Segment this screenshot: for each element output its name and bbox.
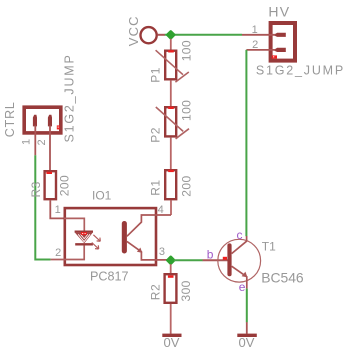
resistor R2 300 xyxy=(149,274,193,303)
wire R2 bottom lead xyxy=(170,304,172,334)
svg-text:200: 200 xyxy=(58,175,72,196)
wire R3 bottom lead to IO1 pin1 xyxy=(50,201,64,219)
wire base pin stub xyxy=(203,259,228,261)
wire IO1 pin4 path collector xyxy=(127,215,171,236)
svg-text:BC546: BC546 xyxy=(261,270,304,286)
node junction IO1 pin3 xyxy=(165,255,176,266)
phototransistor base bar inside IO1 xyxy=(122,221,127,254)
svg-text:b: b xyxy=(207,248,214,262)
svg-text:3: 3 xyxy=(159,246,165,258)
svg-text:0V: 0V xyxy=(239,335,255,350)
svg-text:PC817: PC817 xyxy=(90,270,129,284)
wire net base xyxy=(174,259,203,261)
wire HV pin1 stub xyxy=(242,34,275,36)
svg-text:300: 300 xyxy=(179,280,193,301)
emission arrow 1 xyxy=(93,235,100,242)
emission arrow 2 xyxy=(92,243,99,250)
transistor T1 BC546 xyxy=(207,228,304,294)
connector CTRL S1G2_JUMP xyxy=(3,53,77,145)
svg-text:e: e xyxy=(239,280,246,294)
resistor R3 200 xyxy=(29,171,72,199)
wire VCC pin stub xyxy=(158,34,165,36)
connector HV S1G2_JUMP xyxy=(252,3,345,77)
wire CTRL pin1 stub xyxy=(34,126,36,156)
node junction at VCC net xyxy=(165,30,176,41)
wire HV pin2 stub xyxy=(246,49,275,51)
potentiometer P2 100 xyxy=(148,100,193,169)
svg-text:HV: HV xyxy=(268,3,290,19)
svg-text:2: 2 xyxy=(55,247,61,259)
wire CTRL pin2 stub xyxy=(49,126,51,171)
ground 0V left xyxy=(162,334,181,350)
diode LED inside IO1 xyxy=(75,232,93,245)
wire IO1 pin2 internal from LED cathode xyxy=(51,245,85,259)
wire net HV pin2 to collector xyxy=(245,50,247,236)
svg-text:100: 100 xyxy=(179,40,193,61)
svg-text:1: 1 xyxy=(21,139,33,145)
svg-text:200: 200 xyxy=(179,175,193,196)
svg-text:CTRL: CTRL xyxy=(3,101,17,137)
svg-text:1: 1 xyxy=(55,204,61,216)
svg-text:P1: P1 xyxy=(148,67,162,83)
svg-text:R1: R1 xyxy=(148,179,162,195)
svg-text:P2: P2 xyxy=(148,127,162,143)
wire net emitter to ground xyxy=(246,289,248,323)
wire net CTRL pin1 to IO1 pin2 xyxy=(35,155,50,259)
svg-text:R2: R2 xyxy=(149,284,163,300)
optocoupler IO1 PC817 xyxy=(55,188,165,283)
svg-text:4: 4 xyxy=(158,204,164,216)
arrowhead emitter IO1 xyxy=(137,248,142,253)
svg-text:0V: 0V xyxy=(164,335,180,350)
svg-text:R3: R3 xyxy=(29,181,43,197)
svg-text:VCC: VCC xyxy=(126,15,141,46)
svg-text:2: 2 xyxy=(36,139,48,145)
svg-text:c: c xyxy=(237,228,243,242)
svg-text:100: 100 xyxy=(179,100,193,121)
svg-text:S1G2_JUMP: S1G2_JUMP xyxy=(63,53,77,142)
resistor R1 200 xyxy=(148,170,193,215)
supply VCC xyxy=(126,15,157,46)
ground 0V right xyxy=(237,334,256,350)
wire IO1 pin3 path emitter xyxy=(127,241,168,260)
svg-text:T1: T1 xyxy=(262,240,276,254)
potentiometer P1 100 xyxy=(148,39,193,106)
svg-text:S1G2_JUMP: S1G2_JUMP xyxy=(256,64,345,78)
wire R2 top lead xyxy=(170,264,172,273)
wire ground stub right xyxy=(246,322,248,334)
wire net VCC horizontal xyxy=(165,34,242,36)
wire IO1 pin1 internal to LED xyxy=(64,218,84,231)
svg-text:IO1: IO1 xyxy=(92,188,112,202)
